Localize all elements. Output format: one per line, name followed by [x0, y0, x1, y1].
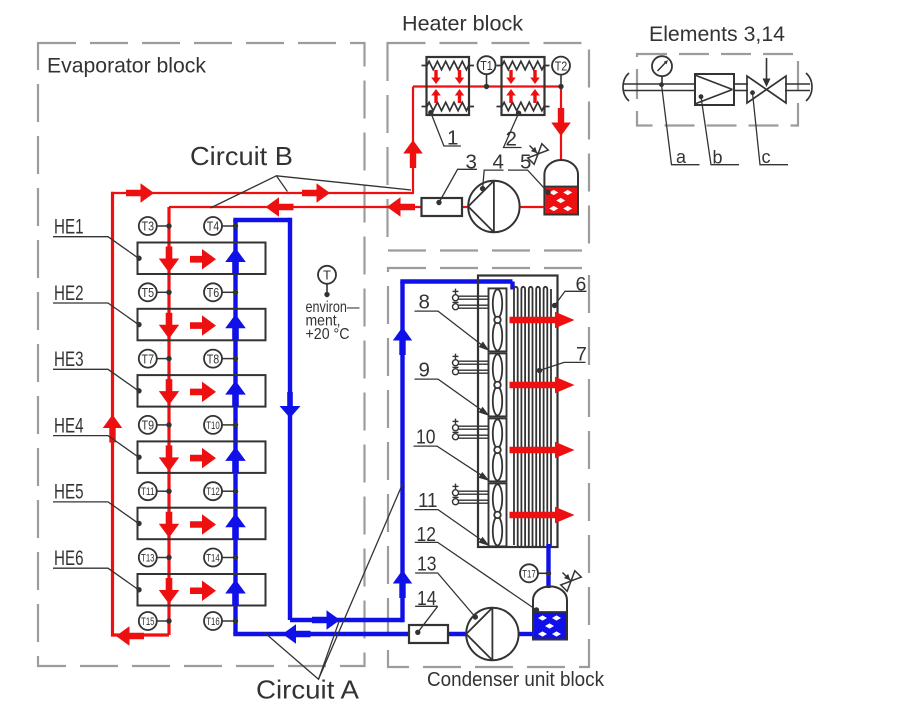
wire: blue right down-comer vertical: [288, 218, 292, 620]
sensor stub T4: [222, 225, 236, 227]
arrow: red air flow from condenser: [510, 442, 575, 458]
svg-text:T5: T5: [142, 285, 155, 300]
svg-text:T3: T3: [142, 219, 155, 234]
arrow: small red down (heater 2): [530, 70, 540, 84]
electric heater 1 box: [427, 57, 470, 115]
heat exchanger HE6 box: [138, 574, 266, 606]
temperature sensor T13: [139, 549, 157, 567]
arrow: small red down (heater 1): [455, 70, 464, 84]
arrow: red air flow from condenser: [510, 377, 575, 393]
wire: red tank 5 to pump 4: [520, 206, 545, 208]
arrow: blue up on condenser riser (inside block): [393, 327, 412, 355]
heating element zigzag bottom (heater 2): [497, 102, 550, 110]
condenser outer case: [478, 276, 558, 548]
svg-text:T8: T8: [207, 351, 220, 366]
arrow: blue up inside HE4: [225, 447, 246, 473]
legend control valve c: [747, 76, 767, 103]
svg-text:T11: T11: [141, 486, 155, 498]
wire: red left riser vertical: [111, 192, 114, 636]
legend check element b: [695, 74, 734, 105]
temperature sensor T12: [204, 482, 222, 500]
svg-text:T1: T1: [480, 58, 493, 73]
svg-text:c: c: [762, 147, 771, 167]
temperature sensor T4: [204, 217, 222, 235]
temperature sensor T14: [204, 549, 222, 567]
sensor stub T5: [157, 291, 170, 293]
arrow: blue up inside HE1: [225, 248, 246, 274]
wire: blue condenser riser vertical: [400, 282, 404, 623]
arrow: red right inside HE6: [190, 581, 216, 602]
svg-text:+20 °C: +20 °C: [306, 326, 350, 343]
wire: blue stub into coil top: [510, 282, 514, 290]
safety valve on tank 12: [555, 565, 581, 591]
fan 11 blades: [493, 484, 502, 513]
wire: blue lower supply horizontal to condenser: [290, 618, 403, 622]
heating element zigzag top (heater 2): [497, 61, 550, 69]
arrow: red right on top line (mid): [302, 183, 330, 203]
fan 9 motor terminals: [453, 355, 459, 357]
arrow: red down to tank 5: [551, 108, 571, 136]
environment temperature sensor T: [326, 284, 328, 293]
pump 13: [466, 608, 518, 660]
svg-text:11: 11: [418, 489, 438, 512]
arrow: small red up (heater 1): [455, 89, 464, 103]
sensor stub T13: [157, 557, 170, 559]
svg-text:10: 10: [416, 426, 436, 449]
svg-text:13: 13: [417, 553, 437, 576]
wire: red pump 4 to element 3: [462, 206, 469, 208]
svg-text:HE5: HE5: [54, 480, 84, 504]
wire: blue condenser top horizontal: [400, 279, 512, 283]
temperature sensor T15: [139, 612, 157, 630]
heat exchanger HE1 box: [138, 243, 266, 275]
svg-text:Elements 3,14: Elements 3,14: [649, 22, 785, 46]
arrow: blue right on lower supply line: [312, 610, 340, 630]
svg-text:T: T: [323, 267, 331, 282]
arrow: blue up inside HE2: [225, 314, 246, 340]
svg-text:HE2: HE2: [54, 281, 84, 305]
fan 10 box: [489, 418, 507, 481]
svg-text:6: 6: [576, 274, 587, 296]
svg-text:T16: T16: [206, 616, 220, 628]
heating element zigzag top (heater 1): [422, 61, 475, 69]
arrow: red down inside HE1: [159, 247, 179, 273]
sensor stub T14: [222, 557, 236, 559]
wire: red drop to receiver tank: [560, 87, 562, 162]
sensor stub T7: [157, 358, 170, 360]
arrow: red right inside HE1: [190, 249, 216, 270]
sensor stub T12: [222, 490, 236, 492]
fan 10 motor terminals: [453, 420, 459, 422]
svg-text:T17: T17: [522, 568, 536, 580]
arrow: small red down (heater 2): [506, 70, 516, 84]
arrow: red left on lower line (near heater block): [387, 197, 415, 217]
arrow: red down inside HE5: [159, 512, 179, 538]
arrow: blue up inside HE6: [225, 580, 246, 606]
heat exchanger HE5 box: [138, 508, 266, 540]
svg-text:HE1: HE1: [54, 215, 84, 239]
fan 9 box: [489, 353, 507, 416]
fan 8 motor terminals: [453, 290, 459, 292]
condenser coil tubes 6,7: [514, 287, 551, 547]
sensor stub T16: [222, 620, 236, 622]
sensor stub T17: [538, 572, 549, 574]
arrow: blue down on right down-comer: [280, 392, 301, 418]
arrow: blue up inside HE5: [225, 513, 246, 539]
arrow: red up on left riser: [103, 415, 122, 443]
arrow: red right on top line (near left corner): [126, 183, 154, 203]
arrow: red right inside HE4: [190, 448, 216, 469]
wire: blue mid riser vertical through heat exchangers: [233, 220, 237, 634]
heat exchanger HE3 box: [138, 375, 266, 407]
temperature sensor T9: [139, 416, 157, 434]
safety valve on tank 5: [522, 138, 548, 164]
arrow: red air flow from condenser: [510, 507, 575, 523]
wire: red supply top horizontal (circuit B): [113, 192, 414, 194]
arrow: blue up on condenser riser (below block): [393, 570, 412, 598]
sensor stub T10: [222, 424, 236, 426]
svg-text:T12: T12: [206, 486, 220, 498]
arrow: small red down (heater 1): [431, 70, 441, 84]
wire: red return lower horizontal (circuit B): [169, 206, 422, 208]
arrow: red right inside HE2: [190, 315, 216, 336]
temperature sensor T: [318, 266, 336, 284]
svg-text:Circuit B: Circuit B: [190, 141, 293, 171]
svg-text:T2: T2: [555, 58, 568, 73]
fan 10 blades: [493, 419, 502, 448]
legend gauge a (pressure gauge): [661, 76, 663, 84]
temperature sensor T1: [478, 56, 496, 74]
temperature sensor T16: [204, 612, 222, 630]
svg-text:Circuit A: Circuit A: [256, 675, 360, 705]
fan 8 blades: [493, 289, 502, 318]
svg-text:T13: T13: [141, 552, 155, 564]
wire: red riser into heater block: [412, 87, 414, 195]
svg-text:T6: T6: [207, 285, 220, 300]
svg-text:HE4: HE4: [54, 413, 84, 437]
wire: blue top horizontal: [233, 218, 290, 222]
wire: red heater top horizontal: [413, 85, 561, 87]
svg-text:Evaporator block: Evaporator block: [47, 55, 206, 78]
temperature sensor T2: [552, 57, 570, 75]
fan 9 blades: [493, 354, 502, 383]
temperature sensor T7: [139, 350, 157, 368]
Elements 3,14 legend frame: [637, 54, 798, 126]
arrow: red down inside HE6: [159, 578, 179, 604]
arrow: small red up (heater 2): [506, 89, 516, 103]
temperature sensor T10: [204, 416, 222, 434]
wire: blue coil outlet down to tank 12: [546, 544, 550, 588]
heat exchanger HE2 box: [138, 309, 266, 341]
temperature sensor T17: [520, 564, 538, 582]
receiver tank 5 (hot circuit): [544, 160, 578, 214]
svg-text:3: 3: [466, 151, 477, 174]
arrow: blue left on return bottom line: [283, 624, 311, 644]
temperature sensor T6: [204, 283, 222, 301]
sensor stub T9: [157, 424, 170, 426]
element 14 (flow device): [409, 625, 448, 643]
heating element zigzag bottom (heater 1): [422, 102, 475, 110]
arrow: small red up (heater 1): [431, 89, 441, 103]
arrow: red down inside HE3: [159, 379, 179, 405]
temperature sensor T8: [204, 350, 222, 368]
svg-text:HE3: HE3: [54, 347, 84, 371]
element 3 (flow device): [422, 198, 463, 216]
wire: red mid down-comer vertical through heat exchangers: [167, 207, 170, 635]
svg-text:T9: T9: [142, 418, 155, 433]
svg-text:a: a: [676, 147, 687, 167]
legend pipe (double line): [623, 83, 695, 85]
arrow: red air flow from condenser: [510, 312, 575, 328]
fan 11 box: [489, 483, 507, 546]
receiver tank 12 (cold circuit): [533, 586, 567, 639]
temperature sensor T3: [139, 217, 157, 235]
arrow: red up into heater: [403, 140, 423, 168]
arrow: small red up (heater 2): [530, 89, 540, 103]
pump 4: [468, 181, 519, 232]
svg-text:9: 9: [419, 359, 430, 382]
svg-text:HE6: HE6: [54, 546, 84, 570]
svg-text:Heater block: Heater block: [402, 13, 524, 36]
wire: blue pump 13 to element 14: [448, 632, 468, 636]
fan 8 box: [489, 288, 507, 351]
svg-text:T4: T4: [207, 219, 220, 234]
electric heater 2 box: [502, 57, 545, 115]
Condenser unit block frame: [388, 268, 589, 667]
sensor stub T3: [157, 225, 170, 227]
heat exchanger HE4 box: [138, 441, 266, 473]
arrow: blue up inside HE3: [225, 381, 246, 407]
sensor stub T6: [222, 291, 236, 293]
svg-text:8: 8: [419, 291, 430, 314]
legend pipe break marks: [623, 73, 629, 101]
sensor stub T2: [560, 74, 562, 87]
arrow: red right inside HE3: [190, 382, 216, 403]
sensor stub T8: [222, 358, 236, 360]
arrow: red right inside HE5: [190, 514, 216, 535]
sensor stub T11: [157, 490, 170, 492]
svg-text:T7: T7: [142, 351, 155, 366]
sensor stub T15: [157, 620, 170, 622]
wire: red bottom horizontal: [111, 633, 169, 636]
temperature sensor T11: [139, 482, 157, 500]
svg-text:T15: T15: [141, 616, 155, 628]
temperature sensor T5: [139, 283, 157, 301]
arrow: red down inside HE4: [159, 445, 179, 471]
svg-text:T10: T10: [206, 420, 220, 432]
svg-text:Condenser unit block: Condenser unit block: [427, 669, 605, 691]
wire: blue tank 12 to pump 13: [517, 632, 533, 636]
fan 11 motor terminals: [453, 485, 459, 487]
sensor stub T1: [486, 75, 488, 87]
arrow: red left on lower line (mid): [266, 197, 294, 217]
arrow: red down inside HE2: [159, 313, 179, 339]
wire: blue return bottom horizontal from condenser: [233, 632, 409, 636]
Evaporator block frame: [38, 43, 365, 666]
arrow: red left on bottom line: [116, 626, 144, 646]
svg-text:T14: T14: [206, 552, 220, 564]
Heater block frame: [388, 43, 590, 251]
